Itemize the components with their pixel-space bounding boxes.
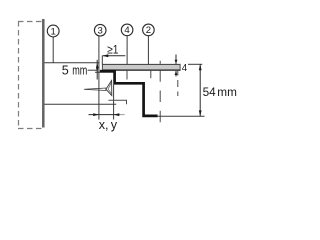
appliance body profile (thick) [100, 71, 158, 116]
svg-text:x,: x, [99, 118, 109, 132]
worktop rebate ledge line [95, 71, 114, 73]
appliance bottom line / 54 mm extension [158, 115, 205, 117]
centre line dashed (x=160.2) [159, 70, 161, 124]
callout circle 4 [121, 24, 133, 36]
callout circle 1 [47, 25, 59, 37]
svg-text:y: y [111, 118, 118, 132]
svg-text:4: 4 [124, 25, 130, 36]
dimension: rebate depth 5 mm [62, 60, 99, 80]
callout circle 3 [94, 24, 106, 36]
dimension: joint gap &#8805;1 [102, 42, 125, 64]
worktop cutout edge + extension line [113, 85, 115, 120]
leader line of callout 1 [52, 37, 54, 63]
centre line tick above glass (x=160.2) [159, 61, 161, 64]
wall W (hidden outline, dashed) [18, 21, 43, 129]
worktop bottom surface line [45, 103, 117, 105]
leader line of callout 4 [126, 36, 128, 65]
leader line of callout 2 [147, 36, 149, 65]
hidden edge dash A (x=150.8) [150, 69, 152, 78]
hidden edge dashed (x=177.8) [177, 69, 179, 97]
hidden step edge under appliance [109, 100, 127, 104]
svg-text:4: 4 [182, 63, 188, 74]
svg-text:5: 5 [62, 63, 69, 77]
svg-text:mm: mm [72, 63, 87, 77]
svg-text:3: 3 [98, 26, 103, 37]
callout circle 2 [143, 24, 155, 36]
dimension: glass thickness 4 [175, 55, 188, 77]
leader + extension line of callout 3 [98, 36, 100, 119]
glass ceramic panel 2 [102, 64, 180, 71]
insertion direction arrow [84, 81, 112, 96]
svg-text:1: 1 [51, 26, 56, 37]
worktop top surface line [45, 62, 100, 64]
svg-text:2: 2 [146, 25, 151, 36]
dimension: cutout offset x, y [89, 113, 125, 132]
svg-text:≥1: ≥1 [107, 42, 119, 56]
hidden edge dash B (x=127) [126, 71, 128, 80]
wall face edge [42, 19, 45, 128]
svg-text:54: 54 [203, 85, 216, 99]
svg-text:mm: mm [217, 85, 237, 99]
dimension: installation depth 54 mm [188, 64, 237, 116]
